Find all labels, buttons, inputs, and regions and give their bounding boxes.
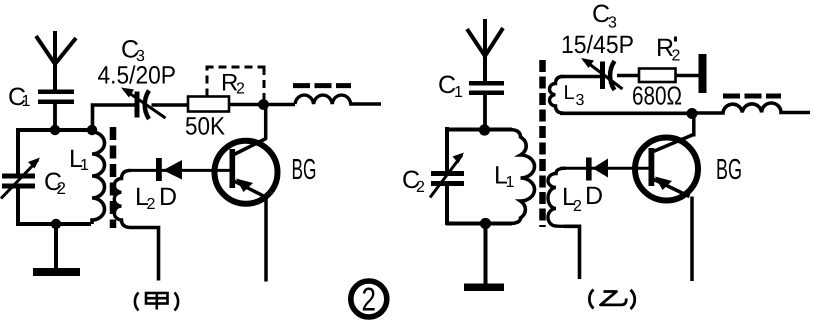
svg-text:1: 1 [454,84,463,101]
svg-text:D: D [585,182,603,210]
svg-text:3: 3 [576,92,585,109]
svg-text:BG: BG [716,154,742,186]
svg-text:BG: BG [292,154,317,186]
svg-text:2: 2 [147,196,156,213]
svg-text:2: 2 [573,198,582,215]
svg-text:D: D [159,183,177,211]
svg-text:1: 1 [22,93,31,110]
svg-text:2: 2 [362,281,377,318]
svg-text:3: 3 [608,15,617,32]
svg-text:15/45P: 15/45P [561,31,634,59]
svg-text:L: L [564,82,575,104]
svg-text:2: 2 [57,179,66,198]
svg-text:2: 2 [672,48,681,65]
svg-text:2: 2 [236,81,245,98]
svg-text:4.5/20P: 4.5/20P [98,62,177,90]
svg-text:1: 1 [80,157,89,174]
svg-text:1: 1 [506,174,515,191]
svg-text:50K: 50K [185,113,225,141]
svg-text:2: 2 [416,179,425,196]
svg-text:680Ω: 680Ω [632,81,682,111]
